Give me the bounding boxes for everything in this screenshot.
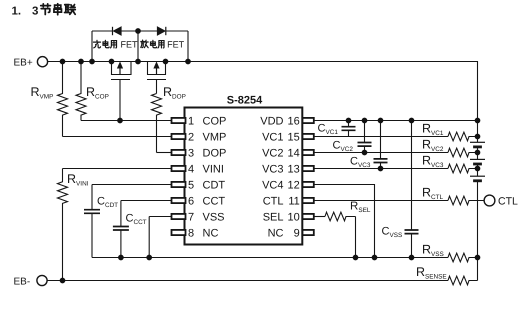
- node Q2 drain: [163, 59, 169, 65]
- wire VC1 pin 15 line: [314, 136, 448, 138]
- FET box top wire segment left: [92, 30, 113, 32]
- node Q1 gate/COP line: [117, 118, 123, 124]
- wire CCDT to pin 5: [92, 184, 172, 186]
- FET box left edge: [91, 31, 93, 62]
- wire VDD pin 16 line: [314, 120, 478, 122]
- svg-text:9: 9: [294, 228, 300, 240]
- svg-text:1.: 1.: [12, 6, 22, 18]
- node VDD/EB+: [475, 118, 481, 124]
- svg-text:CVC1: CVC1: [318, 123, 339, 137]
- pin 12 lead: [303, 182, 314, 187]
- arrow of Q1: [118, 63, 122, 75]
- node RVINI/EB-: [60, 278, 66, 284]
- svg-text:COP: COP: [203, 116, 227, 128]
- svg-text:RVMP: RVMP: [31, 85, 54, 101]
- IC pin lead boxes: [172, 118, 314, 235]
- svg-text:CCT: CCT: [203, 196, 226, 208]
- wire RVINI to pin 4: [63, 168, 172, 170]
- diode D1 (parallel to charge FET): [113, 27, 122, 35]
- svg-text:VSS: VSS: [203, 212, 225, 224]
- capacitor CVSS vertical wire from VDD line: [411, 121, 413, 258]
- svg-text:6: 6: [188, 196, 194, 208]
- pin 1 lead: [172, 118, 186, 123]
- resistor RVC3: [448, 164, 478, 173]
- svg-text:5: 5: [188, 180, 194, 192]
- svg-text:NC: NC: [203, 228, 219, 240]
- transistor Q2 gate bar: [147, 79, 166, 81]
- IC U1 S-8254 body: [185, 108, 303, 245]
- svg-text:15: 15: [288, 132, 300, 144]
- node EB+/RVMP: [60, 59, 66, 65]
- node EB+/box right: [185, 59, 191, 65]
- node Q1/Q2 common: [135, 59, 141, 65]
- svg-text:CVC3: CVC3: [350, 155, 371, 169]
- resistor RVC1: [448, 132, 478, 141]
- node VC1/cell1: [475, 134, 481, 140]
- node VC2/cell2: [475, 150, 481, 156]
- pin 5 lead: [172, 182, 186, 187]
- svg-text:1: 1: [188, 116, 194, 128]
- value labels: [14, 58, 518, 288]
- resistor RDOP: [152, 94, 162, 153]
- resistor RVINI: [58, 169, 68, 281]
- svg-text:VINI: VINI: [203, 164, 224, 176]
- resistor RVMP: [58, 62, 68, 137]
- node VDD/CVSS: [409, 118, 415, 124]
- wire VC4 pin 12 down to VSS rail: [314, 185, 375, 258]
- transistor Q2 gate lead to RDOP: [156, 80, 158, 94]
- pin 3 lead: [172, 150, 186, 155]
- FET box top wire segment right: [166, 30, 188, 32]
- node CVC3/VC3: [378, 166, 384, 172]
- svg-text:2: 2: [188, 132, 194, 144]
- resistor RCTL: [448, 196, 484, 205]
- svg-text:16: 16: [288, 116, 300, 128]
- svg-text:CDT: CDT: [203, 180, 226, 192]
- node VDD/CVC3: [378, 118, 384, 124]
- svg-text:VC1: VC1: [262, 132, 283, 144]
- resistor RSEL: [325, 212, 356, 221]
- svg-text:EB+: EB+: [14, 58, 33, 69]
- svg-text:RVC2: RVC2: [422, 138, 444, 154]
- terminal EB+: [37, 57, 47, 67]
- label 充电用FET: [93, 39, 138, 49]
- svg-text:NC: NC: [268, 228, 284, 240]
- node EB+/RCOP: [78, 59, 84, 65]
- node diode center: [135, 28, 141, 34]
- battery stack vertical wire: [477, 121, 479, 258]
- svg-text:CVC2: CVC2: [333, 140, 354, 154]
- node VDD/CVC1: [346, 118, 352, 124]
- wire RSEL down to VSS rail: [355, 217, 357, 258]
- MAIN SCHEMATIC: [185, 108, 303, 245]
- wire SEL pin 10 to RSEL: [314, 216, 325, 218]
- battery cell BT3: [470, 176, 485, 181]
- wire between diodes: [121, 30, 158, 32]
- resistor RVC2: [448, 148, 478, 157]
- wire diode node down to FET common node: [137, 31, 139, 62]
- svg-text:4: 4: [188, 164, 194, 176]
- node RSEL/VSS rail: [353, 255, 359, 261]
- svg-text:RVC3: RVC3: [422, 154, 444, 170]
- svg-text:3: 3: [32, 6, 38, 18]
- pin 9 lead: [303, 230, 314, 235]
- pin 15 lead: [303, 134, 314, 139]
- svg-text:CTL: CTL: [498, 195, 518, 207]
- capacitor CCT plates: [113, 227, 129, 231]
- pin 11 lead: [303, 198, 314, 203]
- svg-text:14: 14: [288, 148, 300, 160]
- svg-text:VC2: VC2: [262, 148, 283, 160]
- title: 1. 3节串联: [12, 6, 39, 18]
- pin 6 lead: [172, 198, 186, 203]
- svg-text:CVSS: CVSS: [382, 226, 403, 240]
- capacitor CCDT plates: [84, 210, 100, 214]
- node CVC2/VC2: [362, 150, 368, 156]
- node Q1 source: [109, 59, 115, 65]
- capacitor CCDT leads: [91, 185, 93, 258]
- resistor RVSS in VSS rail: [448, 253, 478, 262]
- wire EB- rail: [47, 280, 448, 282]
- resistor RCOP: [76, 62, 86, 121]
- capacitor CVC3: [380, 121, 382, 169]
- svg-text:RVINI: RVINI: [67, 172, 89, 188]
- svg-text:RVSS: RVSS: [422, 243, 444, 259]
- wire EB+ rail to top-right corner down to VDD node: [48, 62, 478, 121]
- svg-text:7: 7: [188, 212, 194, 224]
- wire RCOP to pin 1: [81, 120, 172, 122]
- node VC3/cell3: [475, 166, 481, 172]
- transistor Q1 gate bar: [111, 79, 130, 81]
- IC pin labels: [188, 116, 300, 240]
- svg-text:EB-: EB-: [14, 277, 31, 288]
- capacitor CVC2: [364, 121, 366, 153]
- svg-text:DOP: DOP: [203, 148, 227, 160]
- svg-text:11: 11: [288, 196, 299, 208]
- wire RDOP to pin 3: [157, 152, 172, 154]
- capacitor CCT leads: [120, 201, 122, 258]
- battery cell BT1: [470, 142, 485, 147]
- pin 2 lead: [172, 134, 186, 139]
- svg-text:VDD: VDD: [260, 116, 283, 128]
- svg-text:RCOP: RCOP: [86, 85, 109, 101]
- svg-text:RCTL: RCTL: [422, 186, 444, 202]
- node VDD/CVC2: [362, 118, 368, 124]
- svg-text:FET: FET: [167, 39, 185, 49]
- pin 13 lead: [303, 166, 314, 171]
- transistor Q2 discharge FET body: [138, 62, 166, 75]
- svg-text:8: 8: [188, 228, 194, 240]
- label 放电用FET: [141, 39, 185, 49]
- node pin7/VSS rail: [146, 255, 152, 261]
- wire VC2 pin 14 line: [314, 152, 448, 154]
- node RVSS/RSENSE/cells: [475, 255, 481, 261]
- wire RSENSE up to VSS node: [477, 258, 479, 281]
- battery cell BT2: [470, 159, 485, 164]
- svg-text:VMP: VMP: [203, 132, 227, 144]
- svg-text:RSEL: RSEL: [350, 201, 371, 215]
- pin 10 lead: [303, 214, 314, 219]
- VSS rail: [92, 257, 448, 259]
- pin 4 lead: [172, 166, 186, 171]
- svg-text:RVC1: RVC1: [422, 122, 444, 138]
- capacitor CVC1: [348, 121, 350, 137]
- svg-text:CCCT: CCCT: [126, 212, 147, 226]
- svg-text:10: 10: [288, 212, 300, 224]
- transistor Q1 gate lead down to COP line: [119, 80, 121, 121]
- FET box right edge: [187, 31, 189, 62]
- svg-text:SEL: SEL: [263, 212, 284, 224]
- svg-text:RSENSE: RSENSE: [416, 265, 447, 281]
- svg-text:13: 13: [288, 164, 300, 176]
- svg-text:CTL: CTL: [263, 196, 284, 208]
- node VC4/VSS rail: [372, 255, 378, 261]
- pin 16 lead: [303, 118, 314, 123]
- diode D2 (parallel to discharge FET): [158, 27, 166, 35]
- svg-text:12: 12: [288, 180, 300, 192]
- svg-text:FET: FET: [121, 39, 139, 49]
- svg-text:3: 3: [188, 148, 194, 160]
- terminal EB-: [37, 275, 47, 285]
- arrow of Q2: [154, 63, 158, 75]
- svg-text:CCDT: CCDT: [97, 196, 118, 210]
- transistor Q1 charge FET body: [112, 62, 139, 75]
- wire RVMP to pin 2: [63, 136, 172, 138]
- terminal CTL: [484, 195, 495, 206]
- resistor RSENSE in EB- rail: [448, 276, 478, 285]
- pin 7 lead: [172, 214, 186, 219]
- wire CCT to pin 6: [121, 200, 172, 202]
- svg-text:RDOP: RDOP: [163, 85, 186, 101]
- capacitor CVSS plates: [405, 230, 419, 234]
- wire CTL pin 11 line: [314, 200, 448, 202]
- node CCT/VSS rail: [118, 255, 124, 261]
- node CVSS/VSS rail: [409, 255, 415, 261]
- svg-text:VC4: VC4: [262, 180, 283, 192]
- pin 8 lead: [172, 230, 186, 235]
- wire pin 7 VSS down to VSS rail: [149, 217, 171, 258]
- svg-text:S-8254: S-8254: [227, 95, 263, 107]
- wire VC3 pin 13 line: [314, 168, 448, 170]
- svg-text:VC3: VC3: [262, 164, 283, 176]
- node EB+/box left: [89, 59, 95, 65]
- pin 14 lead: [303, 150, 314, 155]
